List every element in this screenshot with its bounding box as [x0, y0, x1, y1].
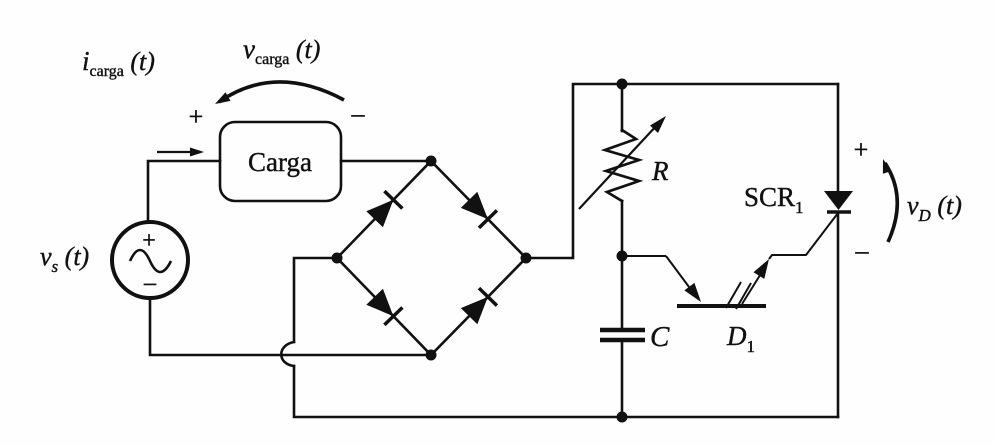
svg-text:C: C: [650, 321, 670, 353]
wire: R bottom to RC node: [621, 201, 624, 256]
resistor R arrow: [579, 124, 658, 209]
wire: RC node down to capacitor: [621, 256, 624, 328]
svg-text:vcarga (t): vcarga (t): [243, 34, 320, 68]
node RC junction dot: [617, 251, 628, 262]
source sine wave: [130, 250, 171, 272]
resistor R zigzag: [605, 130, 639, 201]
svg-text:+: +: [142, 228, 156, 254]
node top-rail junction dot: [617, 79, 628, 90]
SCR1 thyristor: [824, 191, 853, 212]
wire hop over horizontal wire: [281, 342, 294, 366]
svg-text:+: +: [189, 102, 204, 131]
wire: SCR anode to top rail: [837, 84, 840, 192]
wire: source bottom down and right to bridge bottom node: [150, 299, 431, 355]
trigger D1 breakover slashes: [726, 282, 741, 308]
current arrow into Carga: [157, 151, 192, 153]
svg-text:Carga: Carga: [248, 147, 312, 177]
svg-text:–: –: [351, 99, 366, 128]
svg-text:SCR1: SCR1: [744, 182, 804, 217]
wire: capacitor bottom to bottom rail: [621, 342, 624, 417]
wire: source top to Carga input: [148, 161, 220, 222]
trigger D1 right arm with arrow: [742, 213, 838, 304]
svg-text:icarga (t): icarga (t): [82, 46, 155, 80]
vD arc arrow: [885, 163, 897, 242]
node bottom-rail junction dot: [617, 412, 628, 423]
wire: R branch from top rail to node: [621, 84, 624, 131]
diode bridge top-right: [461, 192, 497, 228]
capacitor C plates: [600, 328, 645, 333]
Carga box: [220, 122, 341, 201]
source VS circle: [112, 222, 188, 298]
node left junction dot: [332, 253, 343, 264]
node right junction dot: [521, 253, 532, 264]
diode bridge bottom-left: [366, 289, 402, 325]
svg-text:–: –: [143, 270, 157, 296]
svg-text:D1: D1: [726, 321, 755, 356]
svg-text:vs (t): vs (t): [40, 242, 89, 276]
node top junction dot: [426, 156, 437, 167]
wire: bridge right node right and up to top rail: [526, 84, 838, 258]
wire: bridge left node left then down with hop over source wire: [294, 258, 337, 342]
svg-text:vD (t): vD (t): [907, 191, 962, 225]
node bottom junction dot: [426, 350, 437, 361]
svg-text:+: +: [854, 135, 869, 164]
wire: Carga output to bridge top node: [341, 160, 431, 163]
wire: bridge diamond edges: [337, 161, 431, 258]
svg-text:–: –: [855, 236, 870, 265]
diode bridge top-left: [366, 191, 402, 227]
trigger D1 bar: [677, 304, 766, 308]
wire: continue down to bottom rail: [294, 366, 838, 417]
diode bridge bottom-right: [461, 288, 497, 324]
svg-text:R: R: [651, 156, 669, 186]
trigger D1 left arm: [622, 256, 701, 302]
v carga arc arrow: [219, 82, 344, 102]
wire: right rail up through SCR location: [837, 213, 840, 417]
